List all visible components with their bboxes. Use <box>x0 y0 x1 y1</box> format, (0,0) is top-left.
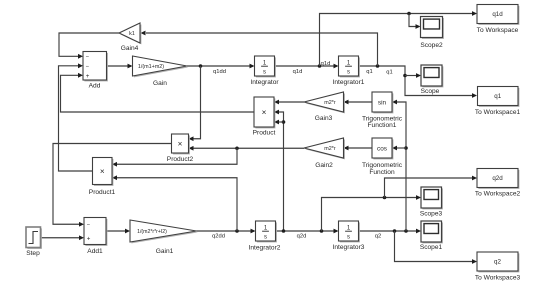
svg-text:m2*r: m2*r <box>324 146 336 152</box>
svg-text:q1d: q1d <box>293 69 303 75</box>
svg-text:q1: q1 <box>494 93 501 100</box>
svg-text:Product1: Product1 <box>89 189 116 196</box>
svg-text:Scope: Scope <box>421 88 440 95</box>
svg-text:+: + <box>86 73 90 80</box>
svg-text:Scope3: Scope3 <box>420 211 443 218</box>
svg-text:Integrator3: Integrator3 <box>333 244 365 251</box>
svg-text:q2d: q2d <box>492 175 503 182</box>
svg-text:q1: q1 <box>386 69 392 75</box>
svg-text:q1: q1 <box>366 69 372 75</box>
svg-text:Gain: Gain <box>153 80 167 87</box>
svg-text:To Workspace2: To Workspace2 <box>475 190 521 197</box>
svg-text:s: s <box>347 234 350 240</box>
svg-text:Function: Function <box>369 169 395 176</box>
svg-text:Product2: Product2 <box>167 156 194 163</box>
svg-text:+: + <box>87 235 91 242</box>
svg-text:×: × <box>262 108 267 117</box>
svg-text:Gain3: Gain3 <box>315 115 333 122</box>
svg-text:Scope2: Scope2 <box>420 42 443 49</box>
svg-text:Scope1: Scope1 <box>420 244 443 251</box>
svg-text:×: × <box>100 167 105 176</box>
svg-text:k1: k1 <box>129 31 135 37</box>
svg-text:q2d: q2d <box>297 233 307 239</box>
svg-text:q1d: q1d <box>321 61 331 67</box>
svg-text:1/(m1+m2): 1/(m1+m2) <box>138 64 164 70</box>
svg-text:q2: q2 <box>494 259 501 266</box>
svg-text:s: s <box>263 69 266 75</box>
svg-text:q1d: q1d <box>492 11 503 18</box>
svg-text:Add1: Add1 <box>87 248 103 255</box>
svg-text:q2dd: q2dd <box>212 233 225 239</box>
svg-text:Function1: Function1 <box>368 122 397 129</box>
svg-text:To Workspace3: To Workspace3 <box>475 274 521 281</box>
svg-text:Integrator1: Integrator1 <box>333 79 365 86</box>
svg-text:Product: Product <box>253 129 276 136</box>
svg-text:s: s <box>347 69 350 75</box>
svg-text:Gain4: Gain4 <box>121 45 139 52</box>
svg-text:cos: cos <box>377 145 387 152</box>
svg-text:s: s <box>264 234 267 240</box>
svg-text:q2: q2 <box>375 233 381 239</box>
svg-text:Integrator: Integrator <box>250 79 279 86</box>
svg-text:Gain2: Gain2 <box>315 162 333 169</box>
svg-text:Gain1: Gain1 <box>156 248 174 255</box>
svg-text:To Workspace: To Workspace <box>477 27 519 34</box>
svg-text:Integrator2: Integrator2 <box>249 244 281 251</box>
svg-text:Step: Step <box>26 250 40 257</box>
svg-text:To Workspace1: To Workspace1 <box>475 109 521 116</box>
svg-text:m2*r: m2*r <box>324 100 336 106</box>
svg-text:1/(m2*r*r+I2): 1/(m2*r*r+I2) <box>137 229 167 235</box>
svg-text:×: × <box>178 139 183 148</box>
svg-text:sin: sin <box>378 99 387 106</box>
svg-text:Add: Add <box>89 82 101 89</box>
svg-text:q1dd: q1dd <box>213 69 226 75</box>
